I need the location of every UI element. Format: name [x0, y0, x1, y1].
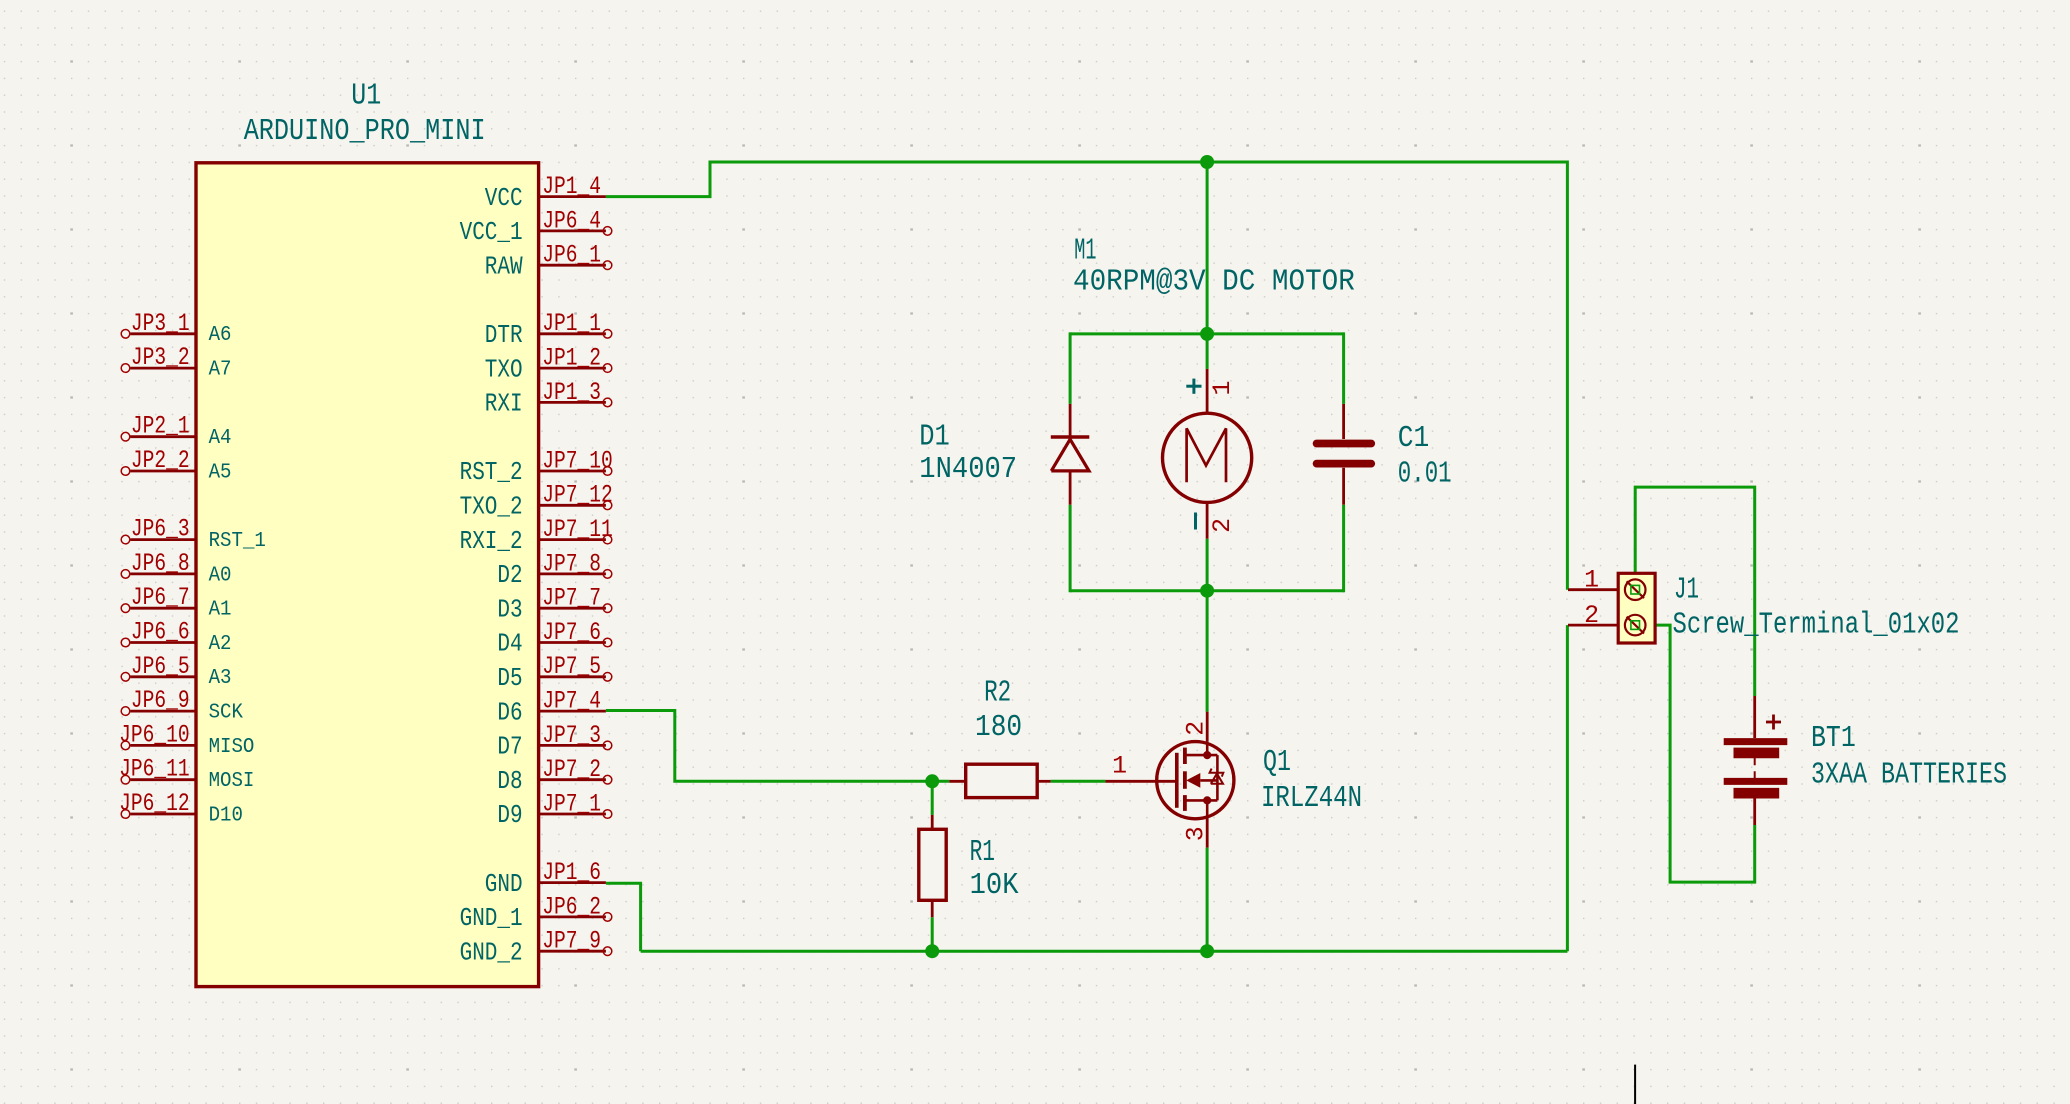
pin JP3_2 (A7) — [121, 344, 231, 381]
svg-text:D3: D3 — [497, 595, 522, 624]
wire snubber loop bottom rail — [1070, 589, 1344, 592]
svg-text:JP7_1: JP7_1 — [542, 790, 601, 818]
pin JP2_1 (A4) — [121, 413, 231, 450]
IC U1 ARDUINO_PRO_MINI body — [196, 163, 539, 987]
value 180 — [975, 710, 1022, 745]
svg-text:JP6_2: JP6_2 — [542, 893, 601, 921]
wire R1 top — [931, 781, 934, 815]
svg-text:GND: GND — [485, 870, 523, 899]
svg-text:A5: A5 — [209, 461, 232, 484]
reference R2 — [984, 676, 1011, 711]
svg-text:IRLZ44N: IRLZ44N — [1261, 781, 1362, 816]
pin JP6_11 (MOSI) — [119, 756, 254, 793]
wire R1 bottom to gnd rail — [931, 917, 934, 951]
svg-text:JP7_8: JP7_8 — [542, 550, 601, 578]
wire motor pin1 stub — [1206, 334, 1209, 369]
svg-text:JP7_3: JP7_3 — [542, 722, 601, 750]
svg-text:D9: D9 — [497, 801, 522, 830]
wire J1 pin2 to gnd rail — [1566, 625, 1569, 951]
svg-text:J1: J1 — [1674, 573, 1699, 608]
svg-text:D8: D8 — [497, 767, 522, 796]
wire Q1 source to gnd rail — [1206, 848, 1209, 952]
reference D1 — [919, 420, 950, 455]
pin JP3_1 (A6) — [121, 310, 231, 347]
wire diode branch upper — [1069, 332, 1072, 404]
capacitor C1 — [1317, 404, 1372, 505]
pin JP6_4 (VCC_1) — [460, 207, 612, 247]
resistor R1 — [919, 815, 946, 917]
diode D1 — [1051, 404, 1090, 505]
motor pin number 2 — [1209, 518, 1237, 533]
svg-text:ARDUINO_PRO_MINI: ARDUINO_PRO_MINI — [244, 114, 486, 149]
svg-text:JP6_5: JP6_5 — [131, 653, 190, 681]
svg-text:JP6_11: JP6_11 — [119, 756, 190, 784]
wire R2 to Q1 gate — [1051, 780, 1106, 783]
svg-text:VCC_1: VCC_1 — [460, 218, 523, 247]
pin JP7_3 (D7) — [497, 722, 611, 762]
value Screw_Terminal_01x02 — [1673, 607, 1960, 642]
svg-text:U1: U1 — [351, 79, 381, 114]
svg-text:RAW: RAW — [485, 252, 523, 281]
svg-text:2: 2 — [1209, 518, 1237, 533]
pin JP6_10 (MISO) — [119, 721, 254, 758]
wire battery minus to J1 pin2 — [1635, 625, 1755, 882]
reference BT1 — [1811, 721, 1856, 756]
pin JP7_5 (D5) — [497, 653, 611, 693]
value ARDUINO_PRO_MINI — [244, 114, 486, 149]
svg-text:1: 1 — [1112, 752, 1127, 780]
reference Q1 — [1263, 745, 1291, 780]
motor pin number 1 — [1209, 381, 1237, 396]
svg-text:SCK: SCK — [209, 702, 244, 725]
svg-text:TXO: TXO — [485, 355, 523, 384]
junction source gnd — [1200, 944, 1214, 958]
pin JP6_9 (SCK) — [121, 687, 243, 724]
svg-text:JP6_10: JP6_10 — [119, 721, 190, 749]
svg-text:JP7_7: JP7_7 — [542, 585, 601, 613]
pin JP1_1 (DTR) — [485, 310, 612, 350]
motor M1 — [1163, 369, 1252, 539]
svg-text:TXO_2: TXO_2 — [460, 493, 523, 522]
pin JP6_5 (A3) — [121, 653, 231, 690]
svg-text:MOSI: MOSI — [209, 770, 255, 793]
pin JP7_10 (RST_2) — [460, 447, 613, 487]
value 1N4007 — [919, 452, 1017, 487]
svg-text:D5: D5 — [497, 664, 522, 693]
wire end square screw2 — [1631, 621, 1640, 630]
svg-text:MISO: MISO — [209, 736, 255, 759]
J1 pin number 2 — [1584, 602, 1599, 630]
reference U1 — [351, 79, 381, 114]
svg-text:R1: R1 — [970, 835, 995, 870]
svg-text:0.01: 0.01 — [1398, 457, 1452, 492]
svg-text:JP7_11: JP7_11 — [542, 516, 613, 544]
svg-text:1N4007: 1N4007 — [919, 452, 1017, 487]
junction at top rail — [1200, 155, 1214, 169]
svg-text:JP6_6: JP6_6 — [131, 619, 190, 647]
junction R1 gnd — [925, 944, 939, 958]
pin JP6_7 (A1) — [121, 584, 231, 621]
pin JP7_6 (D4) — [497, 619, 611, 659]
svg-text:JP1_1: JP1_1 — [542, 310, 601, 338]
pin JP6_1 (RAW) — [485, 242, 612, 282]
svg-text:D10: D10 — [209, 804, 243, 827]
svg-text:JP1_6: JP1_6 — [542, 859, 601, 887]
wire GND from U1 — [606, 883, 641, 951]
svg-text:Q1: Q1 — [1263, 745, 1291, 780]
svg-text:RXI_2: RXI_2 — [460, 527, 523, 556]
pin JP1_4 (VCC) — [485, 173, 606, 213]
svg-text:VCC: VCC — [485, 184, 523, 213]
svg-text:JP1_2: JP1_2 — [542, 345, 601, 373]
value 3XAA BATTERIES — [1811, 758, 2007, 793]
svg-text:R2: R2 — [984, 676, 1011, 711]
svg-text:JP2_2: JP2_2 — [131, 447, 190, 475]
svg-text:JP7_9: JP7_9 — [542, 928, 601, 956]
pin JP6_6 (A2) — [121, 619, 231, 656]
svg-text:JP7_5: JP7_5 — [542, 653, 601, 681]
svg-text:3: 3 — [1182, 826, 1210, 841]
svg-text:JP6_8: JP6_8 — [131, 550, 190, 578]
svg-text:A7: A7 — [209, 359, 232, 382]
svg-text:JP6_7: JP6_7 — [131, 584, 190, 612]
svg-text:JP6_12: JP6_12 — [119, 790, 190, 818]
pin JP1_3 (RXI) — [485, 379, 612, 419]
svg-text:JP1_4: JP1_4 — [542, 173, 601, 201]
pin JP6_8 (A0) — [121, 550, 231, 587]
svg-text:D1: D1 — [919, 420, 950, 455]
svg-text:D6: D6 — [497, 698, 522, 727]
Q1 pin number 3 — [1182, 826, 1210, 841]
svg-text:GND_2: GND_2 — [460, 938, 523, 967]
pin JP6_2 (GND_1) — [460, 893, 612, 933]
svg-text:RXI: RXI — [485, 390, 523, 419]
svg-text:3XAA BATTERIES: 3XAA BATTERIES — [1811, 758, 2007, 793]
wire ground rail — [641, 950, 1568, 953]
svg-text:Screw_Terminal_01x02: Screw_Terminal_01x02 — [1673, 607, 1960, 642]
svg-text:D2: D2 — [497, 561, 522, 590]
svg-text:1: 1 — [1584, 566, 1599, 594]
sheet edge mark — [1634, 1065, 1636, 1104]
svg-text:JP6_3: JP6_3 — [131, 516, 190, 544]
junction gate node — [925, 774, 939, 788]
pin JP7_11 (RXI_2) — [460, 516, 613, 556]
svg-text:JP3_1: JP3_1 — [131, 310, 190, 338]
wire snubber loop top rail — [1070, 332, 1344, 335]
reference J1 — [1674, 573, 1699, 608]
wire motor pin2 stub — [1206, 539, 1209, 591]
svg-text:A6: A6 — [209, 324, 232, 347]
pin JP7_12 (TXO_2) — [460, 482, 613, 522]
wire VCC from U1 to top rail — [606, 162, 1568, 590]
reference M1 — [1074, 234, 1096, 269]
pin JP2_2 (A5) — [121, 447, 231, 484]
reference C1 — [1398, 421, 1430, 456]
svg-text:DTR: DTR — [485, 321, 523, 350]
svg-text:RST_1: RST_1 — [209, 530, 266, 553]
wire end square screw1 — [1631, 585, 1640, 594]
wire D6 to gate resistor — [606, 711, 949, 782]
svg-text:JP6_1: JP6_1 — [542, 242, 601, 270]
svg-text:C1: C1 — [1398, 421, 1430, 456]
pin JP7_4 (D6) — [497, 688, 606, 728]
Q1 pin number 1 — [1112, 752, 1127, 780]
svg-text:A3: A3 — [209, 667, 232, 690]
svg-text:JP7_6: JP7_6 — [542, 619, 601, 647]
svg-text:JP1_3: JP1_3 — [542, 379, 601, 407]
svg-text:D7: D7 — [497, 733, 522, 762]
svg-text:M1: M1 — [1074, 234, 1096, 269]
svg-text:JP7_10: JP7_10 — [542, 447, 613, 475]
svg-text:JP6_4: JP6_4 — [542, 207, 601, 235]
svg-text:A0: A0 — [209, 564, 232, 587]
Q1 pin number 2 — [1182, 721, 1210, 736]
value IRLZ44N — [1261, 781, 1362, 816]
svg-text:A4: A4 — [209, 427, 232, 450]
svg-text:JP7_2: JP7_2 — [542, 756, 601, 784]
pin JP6_12 (D10) — [119, 790, 243, 827]
svg-text:JP3_2: JP3_2 — [131, 344, 190, 372]
motor pin name + — [1186, 379, 1201, 394]
junction loop top — [1200, 327, 1214, 341]
reference R1 — [970, 835, 995, 870]
svg-text:JP2_1: JP2_1 — [131, 413, 190, 441]
resistor R2 — [949, 764, 1050, 797]
pin JP7_1 (D9) — [497, 790, 611, 830]
motor pin name - — [1194, 513, 1197, 530]
pin JP7_2 (D8) — [497, 756, 611, 796]
wire diode branch lower — [1069, 505, 1072, 593]
wire motor branch from top rail — [1206, 162, 1209, 334]
transistor Q1 — [1105, 712, 1234, 848]
svg-text:10K: 10K — [970, 868, 1019, 903]
svg-text:2: 2 — [1182, 721, 1210, 736]
svg-text:JP7_12: JP7_12 — [542, 482, 613, 510]
svg-text:180: 180 — [975, 710, 1022, 745]
pin JP1_2 (TXO) — [485, 345, 612, 385]
svg-text:JP6_9: JP6_9 — [131, 687, 190, 715]
pin JP7_9 (GND_2) — [460, 928, 612, 968]
svg-text:BT1: BT1 — [1811, 721, 1856, 756]
svg-text:A2: A2 — [209, 633, 232, 656]
value 0.01 — [1398, 457, 1452, 492]
battery BT1 — [1724, 696, 1788, 825]
svg-text:RST_2: RST_2 — [460, 458, 523, 487]
J1 pin number 1 — [1584, 566, 1599, 594]
connector J1 screw terminal — [1568, 573, 1655, 643]
svg-text:1: 1 — [1209, 381, 1237, 396]
wire J1 screw1 to battery plus — [1635, 487, 1755, 696]
svg-text:JP7_4: JP7_4 — [542, 688, 601, 716]
pin JP1_6 (GND) — [485, 859, 606, 899]
svg-text:GND_1: GND_1 — [460, 904, 523, 933]
pin JP7_8 (D2) — [497, 550, 611, 590]
wire cap branch upper — [1342, 332, 1345, 404]
svg-text:D4: D4 — [497, 630, 522, 659]
wire motor bottom to Q1 drain — [1206, 591, 1209, 712]
svg-text:A1: A1 — [209, 599, 232, 622]
junction loop bottom — [1200, 584, 1214, 598]
wire cap branch lower — [1342, 505, 1345, 593]
svg-text:40RPM@3V DC MOTOR: 40RPM@3V DC MOTOR — [1073, 265, 1355, 300]
pin JP6_3 (RST_1) — [121, 516, 266, 553]
value 40RPM@3V DC MOTOR — [1073, 265, 1355, 300]
value 10K — [970, 868, 1019, 903]
svg-text:2: 2 — [1584, 602, 1599, 630]
pin JP7_7 (D3) — [497, 585, 611, 625]
